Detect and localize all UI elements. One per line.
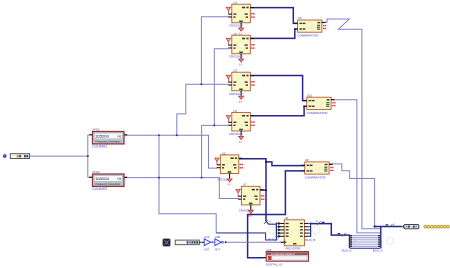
svg-text:BUS_A: BUS_A bbox=[373, 249, 383, 253]
flip-flop U3 bbox=[226, 72, 255, 95]
watermark gear near FF5 output bbox=[268, 226, 276, 234]
svg-text:U6: U6 bbox=[285, 216, 289, 220]
wire buffer output to register clock bbox=[226, 241, 284, 243]
LED probe ring 3 bbox=[431, 225, 434, 228]
wire register outputs to bus bbox=[311, 224, 350, 236]
svg-text:NOT: NOT bbox=[204, 248, 210, 251]
svg-text:XFG2: XFG2 bbox=[92, 170, 100, 174]
svg-text:REGISTER: REGISTER bbox=[285, 246, 301, 250]
wire comparator U10 output to bus bbox=[331, 100, 380, 233]
bus BUS_A structure bbox=[338, 227, 381, 248]
svg-text:COMPARATOR: COMPARATOR bbox=[305, 176, 327, 180]
tiny net label on output wire bbox=[386, 223, 395, 228]
LED probe ring 6 bbox=[440, 225, 443, 228]
ground below U4 bbox=[239, 136, 244, 144]
input digital constant pin bbox=[3, 154, 30, 159]
configurable digital IO box bbox=[263, 252, 309, 262]
wire comparator U9 output zigzag bbox=[322, 19, 381, 229]
svg-text:COMPARATOR: COMPARATOR bbox=[297, 34, 319, 38]
junction after buffer U2A bbox=[211, 241, 213, 243]
flip-flop U5 bbox=[215, 155, 244, 178]
svg-text:CROSSUP: CROSSUP bbox=[229, 24, 243, 28]
comparator U10 bbox=[303, 97, 335, 109]
comparator U11 bbox=[301, 162, 333, 174]
LED probe ring 7 bbox=[444, 225, 447, 228]
wire FF2 Q to comparator U9 B bbox=[251, 29, 298, 38]
inverter bubble bbox=[222, 241, 224, 243]
svg-text:DIGITAL_IO: DIGITAL_IO bbox=[266, 263, 283, 267]
wire comparator U11 A input staircase bbox=[266, 162, 305, 166]
junction after buffer U2B bbox=[225, 241, 227, 243]
svg-text:BUS_B: BUS_B bbox=[305, 238, 315, 242]
register U6 bbox=[281, 220, 308, 246]
wire input to generators bbox=[30, 135, 90, 178]
LED probe ring 1 bbox=[424, 225, 427, 228]
svg-text:CLK4MHZ: CLK4MHZ bbox=[92, 187, 107, 191]
wire bus to output indicator bbox=[375, 226, 402, 228]
flip-flop U4 bbox=[226, 112, 255, 135]
frequency generator XFG2 bbox=[89, 174, 127, 186]
register left bus entries bbox=[264, 219, 281, 240]
wire FF3 clock from gen1 bbox=[177, 84, 229, 135]
svg-text:U7: U7 bbox=[243, 183, 247, 187]
LED probe ring 5 bbox=[437, 225, 440, 228]
key icon bbox=[163, 239, 170, 246]
frequency generator XFG1 bbox=[89, 132, 127, 144]
watermark gear at bus left bbox=[349, 237, 356, 244]
wire gen1 output net bbox=[124, 135, 217, 168]
flip-flop U1 bbox=[226, 4, 255, 27]
ground below U5 bbox=[227, 179, 232, 187]
svg-text:U8: U8 bbox=[305, 158, 309, 162]
LED probe ring 8 bbox=[447, 225, 450, 228]
wire FF2 clock riser bbox=[214, 49, 228, 126]
ground below U2 bbox=[239, 59, 244, 67]
svg-text:U10: U10 bbox=[307, 93, 313, 97]
flip-flop U2 bbox=[226, 35, 255, 58]
buffer U2A bbox=[204, 239, 211, 246]
wire FF5 Q and FF6 Q vertical to bus entry bbox=[239, 159, 266, 221]
LED probe ring 2 bbox=[427, 225, 430, 228]
svg-text:U9: U9 bbox=[298, 16, 302, 20]
svg-text:CLK2MHZ: CLK2MHZ bbox=[92, 144, 107, 148]
output word indicator tag bbox=[402, 224, 419, 228]
wire FF4 Q to comparator U10 B bbox=[251, 106, 307, 116]
svg-text:CROSSUP: CROSSUP bbox=[229, 55, 243, 59]
wire register clock from gen riser bbox=[159, 135, 216, 233]
ground below U1 bbox=[239, 28, 244, 36]
wire FF6 Q bbox=[261, 189, 267, 191]
svg-text:Configurable Digital IO: Configurable Digital IO bbox=[271, 253, 295, 256]
svg-text:CROSSUP: CROSSUP bbox=[229, 92, 243, 96]
svg-text:U4: U4 bbox=[233, 109, 237, 113]
register right bus entries bbox=[308, 219, 324, 237]
wire register clock lower run bbox=[216, 233, 276, 240]
svg-text:COMPARATOR: COMPARATOR bbox=[307, 111, 329, 115]
wire between buffers bbox=[211, 241, 215, 243]
svg-text:U2: U2 bbox=[233, 32, 237, 36]
wire FF1 clock from gen1 riser bbox=[201, 17, 228, 85]
wire FF3 Q to comparator U10 A bbox=[251, 76, 307, 101]
wire FF1 Q to comparator U9 A bbox=[251, 8, 298, 24]
wire FF4 clock from gen2 bbox=[202, 125, 229, 177]
buffer U2B bbox=[215, 239, 222, 246]
svg-text:XFG1: XFG1 bbox=[92, 128, 100, 132]
wire gen2 output net bbox=[124, 178, 238, 199]
watermark gear at bus right bbox=[387, 238, 394, 245]
LED probe ring 4 bbox=[434, 225, 437, 228]
svg-text:U2A: U2A bbox=[204, 235, 209, 239]
ground below U7 bbox=[248, 210, 253, 218]
digital word input tag bbox=[175, 240, 204, 245]
svg-text:CROSSUP: CROSSUP bbox=[229, 132, 243, 136]
watermark gear right of register bbox=[312, 226, 320, 234]
svg-text:U1: U1 bbox=[233, 1, 237, 5]
wire comparator U11 B input to digital IO bbox=[248, 171, 305, 258]
svg-text:U5: U5 bbox=[222, 151, 226, 155]
ground below U3 bbox=[239, 96, 244, 104]
svg-text:U2B: U2B bbox=[215, 235, 220, 239]
svg-text:NOT: NOT bbox=[215, 248, 221, 251]
svg-text:BUS_A: BUS_A bbox=[342, 249, 352, 253]
svg-text:BUS_A: BUS_A bbox=[268, 237, 278, 241]
wire comparator U11 output staircase to bus bbox=[329, 164, 374, 227]
svg-text:U12: U12 bbox=[266, 248, 272, 252]
comparator U9 bbox=[294, 20, 326, 32]
flip-flop U7 bbox=[236, 186, 265, 209]
svg-text:U3: U3 bbox=[233, 69, 237, 73]
